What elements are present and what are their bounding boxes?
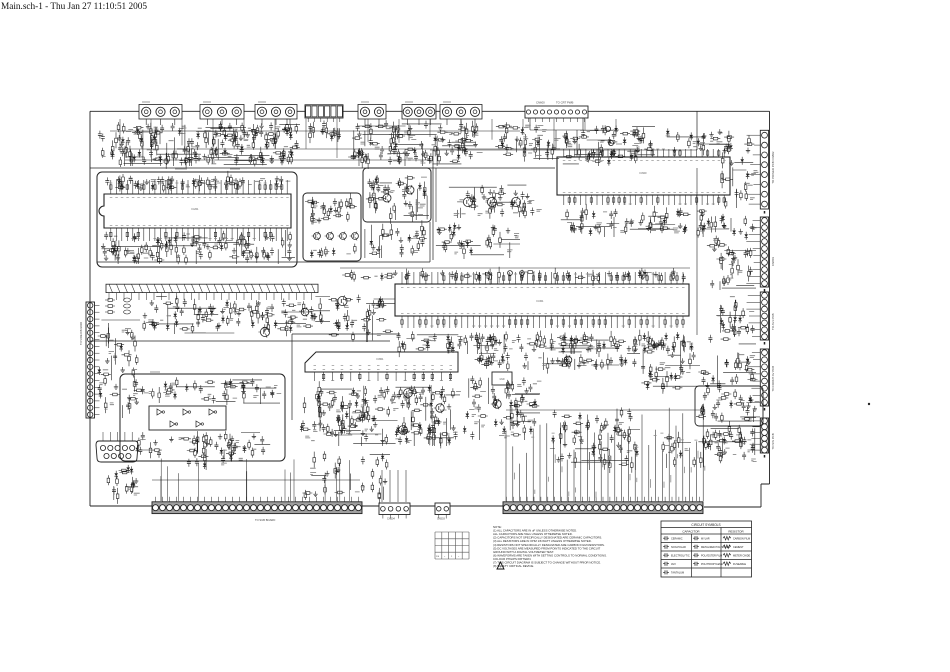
svg-text:TO VIDEO BOARD: TO VIDEO BOARD [79,322,83,345]
svg-text:AVX: AVX [671,563,676,566]
svg-text:CN503: CN503 [437,518,445,521]
svg-text:MYLAR: MYLAR [701,537,710,540]
svg-text:TO SUB BOARD: TO SUB BOARD [255,518,275,522]
svg-text:POLYPROPYLENE: POLYPROPYLENE [701,563,723,566]
svg-text:RESISTOR: RESISTOR [728,530,744,534]
svg-text:FUSEABLE: FUSEABLE [733,563,746,566]
svg-text:CN803: CN803 [771,257,775,266]
svg-text:POLYESTER FILM: POLYESTER FILM [701,554,722,557]
svg-text:CEMENT: CEMENT [733,546,744,549]
svg-text:CN600: CN600 [536,101,545,105]
svg-text:ELECTROLYTIC: ELECTROLYTIC [671,554,690,557]
svg-text:CARBON FILM: CARBON FILM [733,537,750,540]
svg-text:TANTALUM: TANTALUM [671,572,684,575]
svg-text:IC301: IC301 [537,299,544,303]
svg-text:CIRCUIT SYMBOLS: CIRCUIT SYMBOLS [691,523,720,527]
svg-text:TO CRT PWB: TO CRT PWB [556,101,574,105]
svg-text:NON-POLAR: NON-POLAR [671,546,686,549]
svg-text:IC801: IC801 [377,357,384,361]
svg-text:TO SW PCB: TO SW PCB [771,433,775,449]
svg-text:TO AV1 PCB: TO AV1 PCB [771,313,775,330]
svg-text:IC600: IC600 [640,171,647,175]
svg-text:TO POWER PCB CN802: TO POWER PCB CN802 [771,151,775,184]
svg-text:IC201: IC201 [192,207,199,211]
svg-text:CAPACITOR: CAPACITOR [682,530,700,534]
svg-text:CN504: CN504 [387,518,395,521]
svg-text:Main.sch-1 - Thu Jan 27 11:10:: Main.sch-1 - Thu Jan 27 11:10:51 2005 [1,2,147,12]
svg-text:!: ! [500,565,501,569]
svg-text:TO FRONT AV PCB: TO FRONT AV PCB [771,366,775,392]
svg-text:METER OXIDE: METER OXIDE [733,554,751,557]
svg-text:GND: GND [499,379,504,381]
svg-text:CERAMIC: CERAMIC [671,537,683,540]
